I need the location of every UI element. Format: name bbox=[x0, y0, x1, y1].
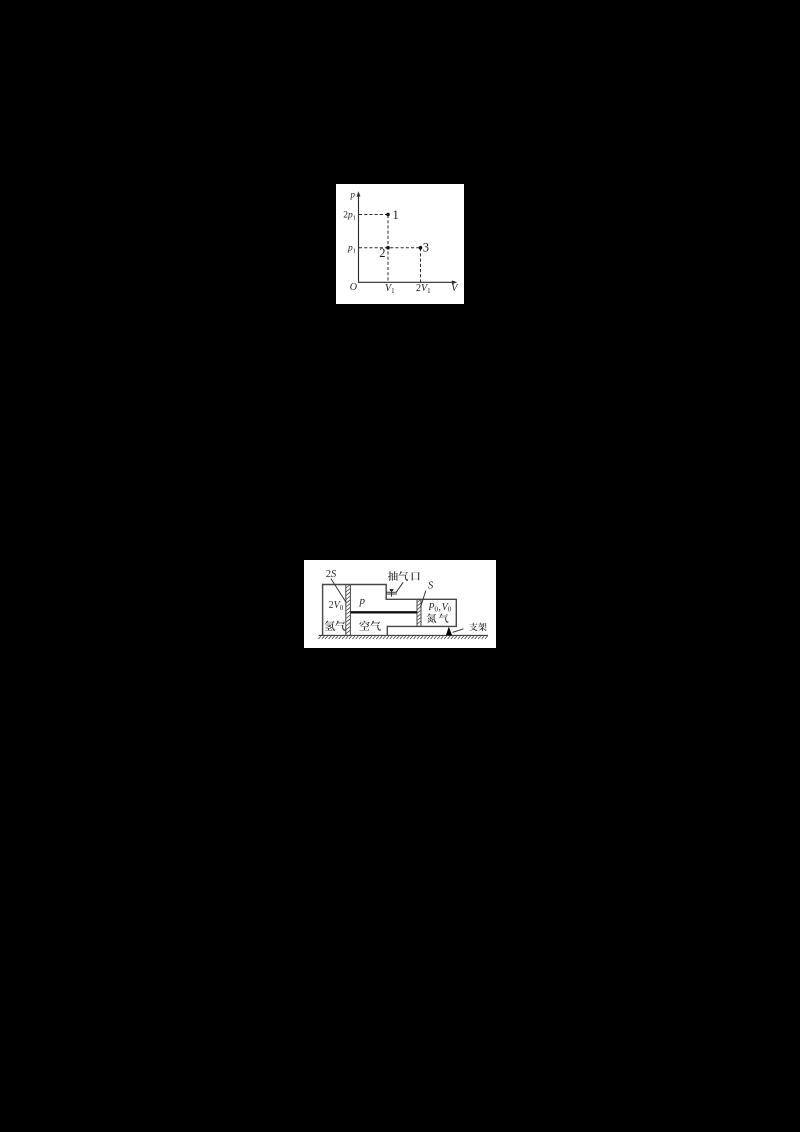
label nitrogen gas bbox=[427, 614, 436, 623]
state point 2 bbox=[386, 246, 390, 250]
label hydrogen gas bbox=[325, 621, 335, 631]
svg-text:p: p bbox=[350, 190, 356, 200]
pump valve stem bbox=[391, 590, 393, 597]
panel: p-V diagram bbox=[336, 184, 464, 304]
V axis (horizontal) bbox=[358, 281, 454, 283]
svg-text:p: p bbox=[358, 595, 365, 607]
svg-text:2p1: 2p1 bbox=[343, 211, 356, 222]
support bracket triangle bbox=[446, 627, 452, 636]
dashed line 2p1 to point 1 bbox=[359, 214, 388, 216]
label air bbox=[359, 621, 369, 631]
svg-text:2: 2 bbox=[379, 246, 385, 260]
svg-text:2S: 2S bbox=[326, 569, 337, 580]
ground line bbox=[319, 634, 489, 636]
svg-text:P0,V0: P0,V0 bbox=[427, 602, 451, 614]
svg-text:2V1: 2V1 bbox=[416, 283, 431, 295]
pump valve cap bbox=[390, 589, 394, 591]
panel: piston apparatus bbox=[304, 560, 496, 648]
label support bracket bbox=[469, 623, 477, 631]
2S pointer line bbox=[331, 579, 346, 603]
bracket pointer line bbox=[453, 629, 464, 633]
pump port flange (double lines) bbox=[386, 592, 397, 594]
p axis arrowhead bbox=[357, 191, 361, 196]
pump-port pointer line bbox=[396, 582, 403, 592]
dashed line p1 to point 3 bbox=[359, 247, 421, 249]
piston S (hatched) bbox=[417, 599, 421, 626]
svg-text:V: V bbox=[451, 283, 459, 294]
V axis arrowhead bbox=[452, 280, 457, 284]
state point 3 bbox=[419, 246, 423, 250]
label pump port bbox=[388, 571, 398, 581]
state point 1 bbox=[386, 213, 390, 217]
svg-text:1: 1 bbox=[393, 208, 399, 222]
connecting rod bbox=[351, 611, 417, 613]
svg-text:3: 3 bbox=[423, 241, 429, 255]
S pointer line bbox=[421, 591, 426, 607]
dashed line point 3 down to 2V1 bbox=[420, 248, 422, 282]
p axis (vertical) bbox=[358, 195, 360, 282]
cylinder outer wall (big bore left wall, top, step, small bore top) bbox=[323, 585, 457, 636]
svg-text:p1: p1 bbox=[347, 244, 356, 255]
ground hatching bbox=[318, 636, 487, 639]
svg-text:V1: V1 bbox=[385, 283, 395, 295]
svg-text:2V0: 2V0 bbox=[329, 600, 344, 612]
dashed line point 1 down to V1 bbox=[387, 215, 389, 282]
svg-text:S: S bbox=[428, 581, 434, 592]
svg-text:O: O bbox=[350, 282, 357, 293]
piston 2S (hatched) bbox=[346, 585, 351, 636]
